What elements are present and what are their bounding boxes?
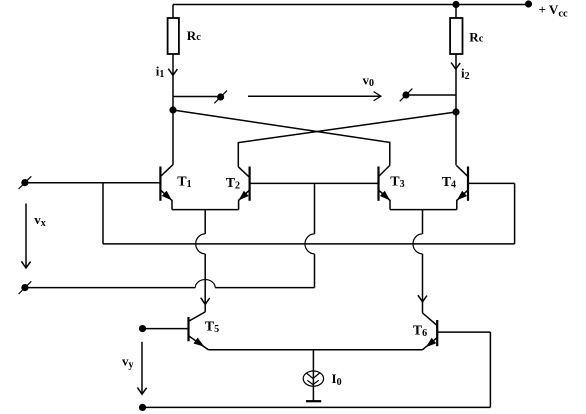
wire: T1-T2 emitter join xyxy=(172,209,239,211)
transistor T3 xyxy=(379,165,391,209)
resistor Rc (right) xyxy=(450,18,462,54)
wire: T3-T4 emitter join xyxy=(390,209,457,211)
svg-text:T4: T4 xyxy=(442,175,456,191)
wire: emitter tap lower to T5 xyxy=(204,254,206,312)
input terminal vx+ xyxy=(19,176,32,189)
current arrow i1 xyxy=(168,69,177,76)
wire: left rail above resistor xyxy=(172,5,174,19)
current arrow i2 xyxy=(451,63,460,70)
transistor T6 xyxy=(422,313,437,350)
wire: T6 base drop to bottom rail xyxy=(489,332,491,407)
wire: T5 base lead xyxy=(143,328,189,330)
wire: base bus right drop xyxy=(514,183,516,244)
junction dot: right collector node xyxy=(452,108,459,115)
current source I0 xyxy=(303,371,323,386)
svg-text:T1: T1 xyxy=(177,175,191,191)
wire: right output node stub xyxy=(409,94,456,96)
wire: T6 base lead xyxy=(437,331,490,333)
svg-text:Rc: Rc xyxy=(469,30,483,45)
wire: left rail below resistor to T1 collector xyxy=(172,54,174,165)
wire: left output node stub xyxy=(173,96,217,98)
wire: emitter tap upper xyxy=(204,210,206,234)
wire: B2-B3 drop lower xyxy=(314,254,316,288)
wire: base bus B1-B4 horizontal xyxy=(103,243,515,245)
junction dot: left collector node xyxy=(169,106,176,113)
svg-text:v0: v0 xyxy=(363,72,375,89)
wire: right rail below resistor to T4 collector xyxy=(455,54,457,166)
input terminal vx- xyxy=(19,281,32,294)
wire: I0 stem xyxy=(312,350,314,401)
arrow v0 xyxy=(248,92,381,101)
wire: vx- line right part xyxy=(215,287,314,289)
wire: cross-couple right node to T2 collector xyxy=(238,112,456,167)
wire: T4 base lead xyxy=(468,182,515,184)
terminal dot vy+ xyxy=(139,325,146,332)
terminal dot: bottom rail xyxy=(139,404,146,411)
transistor T5 xyxy=(189,312,209,350)
current arrow into T5 xyxy=(201,298,210,305)
wire: T2-T3 base link xyxy=(250,182,379,184)
svg-text:T6: T6 xyxy=(413,324,427,340)
wire: common emitter rail xyxy=(208,349,422,351)
wire: emitter tap 2 lower to T6 xyxy=(422,254,424,313)
arrow vx xyxy=(21,204,30,269)
svg-text:Rc: Rc xyxy=(187,28,201,43)
wire hop: emitter tap over base bus xyxy=(196,234,206,254)
junction dot: right resistor top xyxy=(452,1,459,8)
wire: emitter tap 2 upper xyxy=(422,210,424,234)
svg-text:I0: I0 xyxy=(332,371,342,388)
svg-text:i1: i1 xyxy=(156,64,165,81)
wire: right rail above resistor xyxy=(455,5,457,19)
terminal dot: +Vcc supply xyxy=(525,0,532,7)
resistor Rc (left) xyxy=(168,18,179,54)
svg-text:T2: T2 xyxy=(226,176,240,192)
output terminal (left) xyxy=(214,91,227,104)
wire hop: vx- line over emitter tap xyxy=(195,280,215,288)
ground xyxy=(306,400,321,402)
arrow vy xyxy=(137,342,146,394)
transistor T2 xyxy=(238,167,249,210)
wire: vx- line left part xyxy=(25,287,195,289)
output terminal (right) xyxy=(400,89,413,102)
transistor T1 xyxy=(160,165,173,210)
wire: +Vcc top rail xyxy=(173,4,529,6)
svg-text:+ Vcc: + Vcc xyxy=(539,2,568,20)
wire: bottom rail vy- xyxy=(143,406,491,408)
wire hop: B2-B3 drop over base bus xyxy=(305,234,315,254)
svg-text:T5: T5 xyxy=(205,320,219,336)
svg-text:vy: vy xyxy=(122,354,134,371)
wire: base bus left drop xyxy=(102,183,104,244)
svg-text:vx: vx xyxy=(34,212,46,229)
wire: B2-B3 drop upper xyxy=(314,183,316,234)
wire hop: emitter tap 2 over base bus xyxy=(413,234,422,254)
svg-text:T3: T3 xyxy=(390,175,404,191)
wire: cross-couple left node to T3 collector xyxy=(173,110,390,165)
current arrow into T6 xyxy=(418,295,427,302)
wire: T1 base lead xyxy=(25,182,161,184)
svg-text:i2: i2 xyxy=(461,66,470,83)
transistor T4 xyxy=(456,165,468,209)
